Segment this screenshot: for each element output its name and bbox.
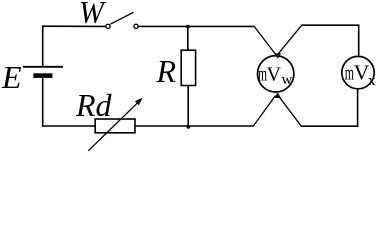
resistor R body: [181, 50, 195, 85]
wire switch to top junction and onward: [138, 25, 254, 27]
wire top-left horizontal (battery top corner to switch): [43, 25, 106, 27]
svg-text:Rd: Rd: [75, 87, 113, 123]
wire left vertical top (corner down to battery plate): [42, 25, 44, 66]
svg-text:E: E: [1, 59, 22, 95]
switch W left contact circle: [106, 24, 110, 28]
battery E short thick plate: [33, 73, 52, 78]
switch W right contact circle: [134, 24, 138, 28]
millivoltmeter mVx circle: [342, 56, 374, 88]
wire Rd to bottom junction: [135, 125, 254, 127]
svg-text:V: V: [267, 64, 282, 86]
svg-text:w: w: [282, 72, 293, 88]
node junction dot top of R: [186, 25, 190, 29]
wire diagonal bottom-left into meter mVw: [253, 96, 275, 127]
wire diagonal top-left into meter mVw: [254, 26, 276, 54]
wire junction down to R: [187, 26, 189, 50]
svg-text:x: x: [368, 73, 376, 89]
wire left vertical bottom (battery to bottom wire): [42, 78, 44, 127]
node junction dot bottom of R: [187, 125, 191, 129]
wire right vertical down to mVx: [358, 25, 360, 56]
millivoltmeter mVw circle: [258, 56, 294, 92]
arrowhead into mVw top: [275, 53, 281, 58]
svg-text:R: R: [156, 53, 177, 89]
wire top-right horizontal: [301, 24, 359, 26]
wire mVx bottom vertical: [357, 89, 359, 127]
wire R bottom to bottom junction: [187, 86, 189, 127]
arrowhead into mVw bottom: [275, 93, 281, 98]
svg-text:W: W: [79, 0, 107, 30]
battery E long plate: [23, 66, 63, 68]
rheostat Rd body: [95, 119, 135, 133]
wire diagonal bottom-right from meter mVw: [277, 94, 302, 127]
wire diagonal top-right from meter mVw: [277, 25, 302, 56]
rheostat Rd arrow: [88, 102, 138, 151]
switch W blade: [110, 12, 133, 24]
wire bottom-right horizontal: [301, 125, 359, 127]
wire bottom-left horizontal (to Rd): [42, 125, 96, 127]
